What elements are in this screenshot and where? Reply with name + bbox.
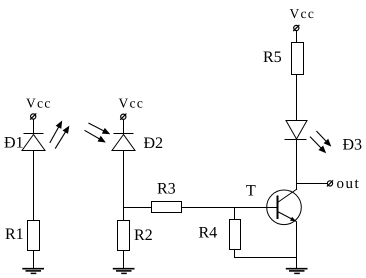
light arrows of LED D1 xyxy=(50,122,69,149)
label R1 xyxy=(5,228,22,239)
wire Vcc to D2 xyxy=(123,119,125,134)
wire R4 to emitter line xyxy=(235,250,297,258)
wire D2 down to R2 xyxy=(123,151,125,221)
label R3 xyxy=(157,183,175,194)
ground (emitter) xyxy=(286,269,308,274)
resistor R1 xyxy=(28,221,40,251)
resistor R3 xyxy=(152,202,182,213)
wire emitter to ground xyxy=(296,222,298,269)
wire R1 to ground xyxy=(33,251,35,269)
ground (D1 branch) xyxy=(22,269,44,274)
resistor R5 xyxy=(292,43,304,75)
label D3 xyxy=(343,139,362,150)
wire D3 to collector node xyxy=(296,140,298,191)
node Vcc (R5 branch) xyxy=(290,9,314,18)
diode D3 (LED) xyxy=(285,121,308,140)
wire Vcc to R5 xyxy=(296,31,298,43)
diode D1 (LED) xyxy=(22,134,45,151)
wire R3 to base xyxy=(182,207,278,209)
terminal of Vcc R5 branch xyxy=(293,25,299,31)
node Vcc (D1 branch) xyxy=(26,99,50,108)
light arrows into D2 xyxy=(85,123,110,142)
label R4 xyxy=(199,227,217,238)
terminal out xyxy=(327,180,333,186)
wire R5 to D3 xyxy=(296,75,298,121)
transistor T xyxy=(267,189,302,225)
diode D2 (photodiode) xyxy=(112,134,135,151)
wire out xyxy=(297,183,328,185)
terminal of Vcc D2 branch xyxy=(120,114,126,120)
wire base node down to R4 xyxy=(234,208,236,220)
resistor R2 xyxy=(118,221,130,251)
wire Vcc to D1 xyxy=(33,119,35,133)
terminal of Vcc D1 branch xyxy=(30,113,36,119)
node Vcc (D2 branch) xyxy=(119,99,143,108)
ground (D2 branch) xyxy=(113,269,135,274)
label R5 xyxy=(263,52,281,63)
label R2 xyxy=(134,229,151,240)
wire R2 to ground xyxy=(123,251,125,269)
label out xyxy=(337,180,359,189)
label T xyxy=(246,185,255,195)
resistor R4 xyxy=(230,220,241,250)
light arrows of LED D3 xyxy=(310,131,330,152)
label D1 xyxy=(4,137,22,148)
wire D1 to R1 xyxy=(33,151,35,221)
label D2 xyxy=(144,137,162,148)
wire node to R3 xyxy=(124,207,152,209)
